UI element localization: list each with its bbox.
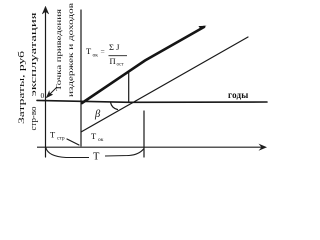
svg-text:Т: Т	[86, 46, 92, 56]
svg-text:β: β	[94, 109, 101, 120]
svg-text:ост: ост	[117, 63, 125, 68]
svg-text:годы: годы	[228, 90, 248, 100]
svg-text:ок: ок	[98, 137, 104, 143]
svg-text:издержек и доходов: издержек и доходов	[66, 2, 75, 97]
svg-text:П: П	[110, 56, 116, 66]
svg-text:эксплуатация: эксплуатация	[29, 12, 38, 97]
svg-text:=: =	[101, 47, 105, 56]
svg-text:Затраты, руб: Затраты, руб	[17, 51, 26, 124]
svg-text:стр: стр	[57, 136, 65, 142]
svg-text:стр-во: стр-во	[29, 107, 38, 131]
svg-text:Т: Т	[93, 152, 100, 163]
svg-text:0: 0	[41, 91, 45, 100]
svg-text:Точка приведения: Точка приведения	[54, 8, 63, 91]
svg-text:ок: ок	[93, 53, 99, 59]
svg-text:Т: Т	[91, 131, 97, 141]
svg-text:Σ J: Σ J	[109, 42, 120, 52]
svg-text:Т: Т	[50, 130, 56, 140]
